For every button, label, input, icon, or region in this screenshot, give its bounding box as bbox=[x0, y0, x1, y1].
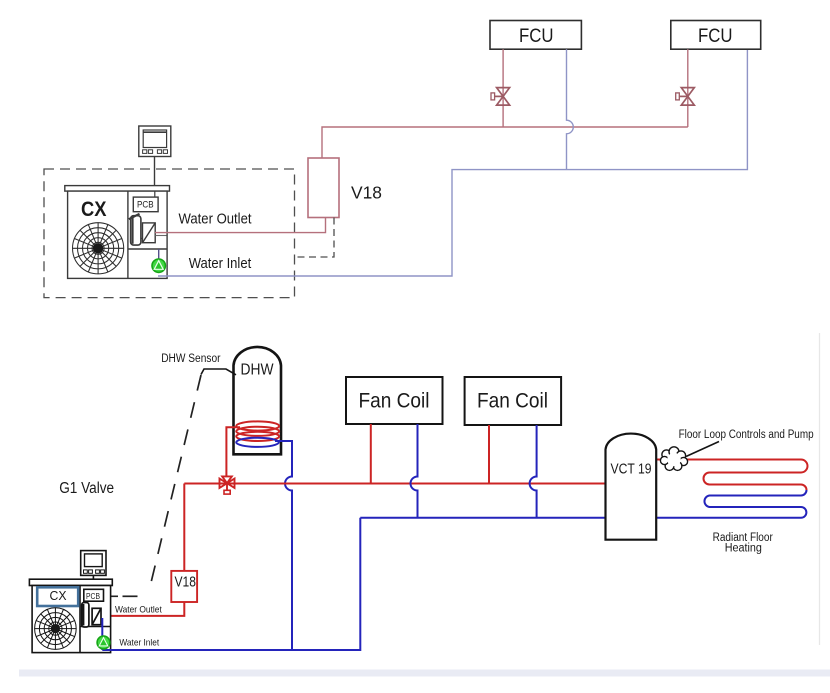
pipe V18 to pump outlet (red) bbox=[101, 602, 184, 616]
wire controller to heat pump bbox=[154, 157, 156, 187]
svg-text:VCT 19: VCT 19 bbox=[611, 462, 652, 478]
svg-text:DHW: DHW bbox=[241, 362, 274, 379]
pipe FCU2 supply riser (red) bbox=[687, 49, 689, 127]
Fan Coil box 1 bbox=[346, 377, 443, 424]
svg-text:Water Inlet: Water Inlet bbox=[189, 255, 252, 272]
pipe pump to inlet (blue vertical) bbox=[101, 618, 103, 650]
pipe main return (blue, bottom) bbox=[360, 517, 605, 519]
capacitor cap (top unit) bbox=[129, 214, 140, 219]
valve FCU1 (2-way) bbox=[491, 88, 510, 106]
svg-text:V18: V18 bbox=[351, 183, 382, 203]
FCU box 1 bbox=[490, 21, 581, 50]
pipe FC2 supply (red) bbox=[488, 425, 490, 484]
pipe water outlet (top, red) bbox=[155, 218, 326, 233]
pipe V18 to FCU supply main (red) bbox=[322, 127, 688, 158]
pipe FCU1 supply riser (red) bbox=[502, 49, 504, 127]
Fan Coil box 2 bbox=[465, 377, 561, 425]
pipe FC2 return with hop (blue) bbox=[530, 425, 537, 518]
FCU box 2 bbox=[671, 21, 761, 50]
svg-text:Floor Loop Controls and Pump: Floor Loop Controls and Pump bbox=[679, 429, 814, 441]
valve G1 (3-way) bbox=[220, 476, 235, 494]
leader DHW sensor bbox=[201, 369, 236, 375]
wire divider to green pump bbox=[158, 249, 160, 260]
green circulation pump (top) bbox=[152, 259, 165, 272]
compressor (bottom) bbox=[82, 603, 89, 628]
dashed sensor wire bbox=[149, 375, 201, 591]
pipe FC1 supply (red) bbox=[370, 424, 372, 484]
DHW coil bbox=[236, 421, 279, 447]
pipe water inlet (bottom, blue) bbox=[102, 518, 360, 650]
wire V18 control (dashed) bbox=[295, 218, 335, 258]
controller display U1 (top heat pump) bbox=[139, 126, 171, 157]
valve V18 (bottom) bbox=[171, 571, 197, 602]
fan (top unit) bbox=[73, 223, 124, 274]
fan (bottom unit) bbox=[35, 608, 77, 650]
pipe DHW coil supply (red) bbox=[226, 427, 240, 476]
svg-text:PCB: PCB bbox=[86, 592, 100, 601]
svg-text:FCU: FCU bbox=[519, 26, 554, 47]
valve FCU2 (2-way) bbox=[676, 88, 695, 106]
valve V18 (top) bbox=[308, 158, 339, 218]
compressor (top unit) bbox=[131, 216, 141, 245]
svg-text:Water Outlet: Water Outlet bbox=[179, 210, 253, 227]
radiant floor serpentine (blue return) bbox=[656, 490, 806, 518]
faint page edge line bbox=[819, 333, 821, 645]
svg-text:DHW Sensor: DHW Sensor bbox=[161, 353, 220, 365]
green circulation pump (bottom) bbox=[97, 636, 110, 649]
heat pump CX (top) bbox=[65, 186, 170, 279]
svg-text:PCB: PCB bbox=[137, 200, 154, 210]
svg-text:V18: V18 bbox=[175, 575, 197, 591]
svg-text:FCU: FCU bbox=[698, 26, 733, 47]
svg-text:Water Inlet: Water Inlet bbox=[119, 637, 159, 648]
radiant floor serpentine (red supply) bbox=[656, 460, 807, 491]
pipe DHW coil return (blue) with hop bbox=[275, 441, 292, 650]
DHW tank bbox=[234, 347, 282, 454]
pipe main supply (red, bottom) bbox=[184, 483, 605, 485]
svg-text:CX: CX bbox=[81, 198, 107, 221]
pump symbol (top unit) bbox=[143, 223, 156, 243]
pipe water inlet (top, blue) bbox=[158, 49, 747, 276]
svg-text:Heating: Heating bbox=[725, 542, 762, 554]
heat pump CX (bottom) bbox=[29, 579, 112, 652]
pump cloud (floor loop controls) bbox=[660, 447, 687, 471]
svg-text:Water Outlet: Water Outlet bbox=[115, 605, 162, 616]
leader floor loop label bbox=[686, 442, 719, 457]
CX badge (bottom) bbox=[37, 587, 78, 606]
PCB box (bottom) bbox=[84, 589, 104, 601]
pump symbol (bottom) bbox=[92, 608, 101, 624]
pipe FC1 return with hop (blue) bbox=[411, 424, 418, 518]
controller display (bottom heat pump) bbox=[81, 551, 106, 576]
wire controller to pump (bottom) bbox=[92, 575, 94, 589]
dashed enclosure around top heat pump bbox=[44, 169, 295, 298]
svg-text:Fan Coil: Fan Coil bbox=[359, 389, 430, 413]
svg-text:G1 Valve: G1 Valve bbox=[59, 480, 114, 497]
bottom page band bbox=[19, 670, 830, 677]
pipe FCU1 return with hop (blue) bbox=[567, 49, 574, 169]
buffer tank VCT 19 bbox=[606, 434, 657, 540]
svg-text:Fan Coil: Fan Coil bbox=[477, 389, 548, 413]
svg-text:CX: CX bbox=[50, 589, 68, 603]
PCB box (top unit) bbox=[133, 197, 158, 212]
pipe red riser to V18 (bottom) bbox=[183, 484, 185, 571]
